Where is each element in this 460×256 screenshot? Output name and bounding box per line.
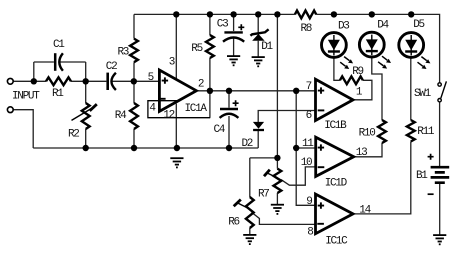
IC1D plus mark: [318, 144, 324, 150]
IC1B plus mark: [318, 87, 324, 93]
junction dot 7 (371.8,14.4): [369, 11, 375, 17]
svg-text:R9: R9: [352, 66, 363, 78]
wire: D4 cathode jog to R10: [372, 58, 382, 121]
junction dot 4 (258.2,14.4): [255, 11, 261, 17]
wire: D2 bottom to ground rail: [257, 131, 259, 148]
C3 ground: [227, 55, 240, 57]
svg-text:R2: R2: [68, 128, 79, 140]
junction dot 3 (233.6,14.4): [230, 11, 236, 17]
resistor R10: [378, 120, 386, 143]
svg-text:13: 13: [356, 147, 367, 159]
node A wire: to IC1A pin 5: [134, 80, 160, 82]
svg-text:C1: C1: [53, 39, 65, 51]
junction dot 1 (176.3,14.4): [173, 11, 179, 17]
wire: SW1 to battery: [439, 102, 441, 167]
wire: R2 leads: [85, 81, 87, 148]
wire: R11 to IC1C pin 14: [353, 142, 411, 214]
IC1A pin-4 box: [148, 101, 210, 118]
junction dot 12 (209.9,90.8): [207, 88, 213, 94]
wire: R6 wiper to IC1C pin 8: [252, 212, 316, 224]
junction dot 6 (333.9,14.4): [331, 11, 337, 17]
op-amp IC1B: [316, 79, 354, 120]
wire: IC1A output bus: [196, 90, 315, 92]
svg-text:R5: R5: [191, 43, 202, 55]
junction dot 14 (296.2,90.8): [293, 88, 299, 94]
wire: IC1A pin 3 from rail: [175, 14, 177, 79]
wire: C2 to node A: [113, 80, 134, 82]
resistor R5: [206, 35, 214, 58]
svg-text:2: 2: [198, 79, 204, 91]
wire: C4 leads: [228, 91, 230, 148]
svg-text:D4: D4: [377, 20, 389, 32]
junction dot 15 (85.7,148): [83, 145, 89, 151]
zener diode D1: [250, 29, 268, 35]
wire: C1 branch: [34, 62, 86, 81]
IC1C plus mark: [318, 202, 324, 208]
wire: signal to pins 11 and 9: [296, 91, 315, 206]
svg-text:R10: R10: [359, 127, 376, 139]
op-amp IC1A: [159, 70, 196, 111]
wire: R9 right to IC1B pin 1: [353, 80, 372, 100]
wire: D5 cathode to R11: [410, 58, 412, 121]
op-amp IC1C: [316, 194, 354, 234]
junction dot 13 (229,90.8): [226, 88, 232, 94]
trimmer R7: [274, 169, 282, 193]
svg-text:D1: D1: [261, 41, 273, 53]
svg-text:R8: R8: [301, 23, 312, 35]
B1 ground: [433, 234, 446, 236]
svg-text:8: 8: [307, 227, 313, 239]
B1 plus mark: [428, 154, 434, 160]
svg-text:C2: C2: [106, 61, 117, 73]
wire: battery minus to ground: [439, 184, 441, 235]
junction dot 5 (277.4,14.4): [274, 11, 280, 17]
svg-text:R6: R6: [228, 217, 239, 229]
wire: IC1D pin 11: [296, 147, 316, 149]
svg-text:IC1B: IC1B: [324, 120, 347, 132]
junction dot 20 (277.4,157.9): [274, 155, 280, 161]
wire: R6 leads: [249, 158, 251, 235]
junction dot 19 (296.2,148): [293, 145, 299, 151]
wire: R4 leads: [133, 81, 135, 148]
wire: R5 leads: [209, 14, 211, 117]
svg-text:R1: R1: [52, 88, 64, 100]
D1 ground: [252, 56, 265, 58]
svg-text:9: 9: [306, 196, 312, 208]
junction dot 8 (411.2,14.4): [408, 11, 414, 17]
svg-text:R11: R11: [417, 126, 435, 138]
trimmer R6: [246, 197, 254, 228]
svg-text:10: 10: [301, 157, 312, 169]
capacitor C4: [220, 108, 238, 110]
svg-text:C3: C3: [217, 19, 228, 31]
input terminal top: [7, 78, 13, 84]
junction dot 11 (133.8,81.3): [131, 78, 137, 84]
IC1C minus mark: [317, 223, 324, 225]
battery B1: [431, 167, 450, 177]
svg-text:12: 12: [163, 109, 174, 121]
svg-text:D2: D2: [242, 138, 253, 150]
LED D5: [399, 33, 424, 58]
resistor R3: [130, 39, 138, 63]
IC1D minus mark: [318, 166, 325, 168]
R7 ground: [271, 204, 284, 206]
IC1A minus mark: [159, 98, 166, 100]
IC1A plus mark: [162, 77, 168, 83]
resistor R4: [130, 103, 138, 129]
wire: input bottom to ground rail: [13, 110, 33, 148]
wire: R10 to IC1D pin 13: [354, 143, 382, 157]
wire: R6/R7 top link: [250, 157, 278, 159]
resistor R9: [340, 76, 363, 84]
IC1B minus mark: [318, 109, 325, 111]
wire: R7 leads: [276, 158, 278, 204]
capacitor C3: [224, 31, 242, 33]
junction dot 9 (33.8,81.3): [31, 78, 37, 84]
svg-text:3: 3: [169, 57, 175, 69]
resistor R1: [46, 77, 71, 85]
main ground: [170, 157, 183, 159]
resistor R8: [295, 11, 316, 19]
wire: D3 cathode to R9: [334, 58, 340, 81]
svg-text:5: 5: [148, 72, 154, 84]
junction dot 10 (85.7,81.3): [83, 78, 89, 84]
junction dot 16 (134,148): [131, 145, 137, 151]
svg-text:D3: D3: [338, 21, 349, 33]
C3 plus mark: [238, 24, 244, 30]
svg-text:IC1D: IC1D: [325, 178, 348, 190]
svg-text:14: 14: [359, 204, 371, 216]
LED D4: [359, 32, 384, 57]
wire: +V top rail (left of R8): [134, 13, 295, 15]
svg-text:R4: R4: [115, 110, 127, 122]
svg-text:7: 7: [306, 81, 312, 93]
svg-text:6: 6: [306, 110, 312, 122]
wire: IC1A pin 12 to ground rail: [175, 104, 177, 148]
wire: input top lead: [13, 80, 46, 82]
op-amp IC1D: [316, 137, 354, 176]
wire: D1 leads: [257, 14, 259, 56]
svg-text:SW1: SW1: [414, 88, 432, 100]
svg-text:B1: B1: [416, 170, 428, 182]
svg-text:11: 11: [302, 138, 314, 150]
trimmer R2: [82, 103, 90, 129]
svg-text:IC1C: IC1C: [325, 236, 348, 248]
R6 ground: [243, 234, 256, 236]
resistor R11: [407, 120, 415, 142]
C4 plus mark: [233, 100, 239, 106]
junction dot 2 (209.9,14.4): [207, 11, 213, 17]
svg-text:INPUT: INPUT: [12, 90, 40, 102]
B1 minus mark: [428, 193, 434, 195]
wire: IC1D pin 10 feedback to R7 wiper: [281, 167, 316, 185]
wire: +V drop to R7: [276, 14, 278, 158]
svg-text:R7: R7: [258, 189, 269, 201]
svg-text:IC1A: IC1A: [185, 103, 208, 115]
svg-text:D5: D5: [413, 19, 424, 31]
input terminal bottom: [7, 107, 13, 113]
diode D2: [253, 129, 264, 131]
wire: IC1B pin 6 / D2 top: [258, 111, 315, 123]
wire: +V top rail (right of R8) to SW1: [316, 14, 439, 82]
wire: R1 right to C2: [71, 80, 106, 82]
capacitor C2: [106, 73, 109, 90]
capacitor C1: [54, 53, 57, 71]
svg-text:R3: R3: [118, 46, 129, 58]
junction dot 18 (229,148): [226, 145, 232, 151]
svg-text:C4: C4: [214, 124, 226, 136]
LED D3: [322, 33, 347, 58]
wire: C3 leads: [233, 14, 235, 55]
junction dot 17 (176.9,148): [174, 145, 180, 151]
wire: ground rail: [33, 147, 258, 149]
wire: R3 leads: [133, 14, 135, 81]
switch SW1: [438, 83, 441, 86]
